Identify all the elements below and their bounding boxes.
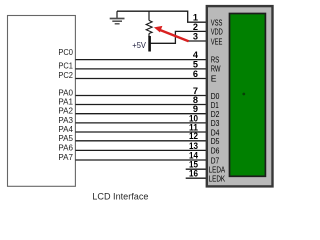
svg-text:D6: D6 [211, 146, 220, 156]
wire PC0 to pin 4 [75, 59, 207, 61]
svg-text:E: E [211, 73, 217, 83]
pin label PA7 [58, 153, 73, 162]
svg-text:5: 5 [193, 59, 198, 69]
LCD module body [207, 6, 273, 186]
wire PA6 to pin 13 [75, 149, 207, 151]
pin name RW [211, 64, 221, 74]
pin number 1 [193, 13, 198, 23]
wire VDD pin 2 to +5V [149, 31, 207, 43]
potentiometer wiper red arrow to VEE [154, 26, 189, 41]
svg-text:VDD: VDD [211, 27, 223, 37]
caption LCD Interface [92, 191, 148, 201]
svg-text:LCD Interface: LCD Interface [92, 191, 148, 201]
pin number 6 [193, 69, 198, 79]
wire PA3 to pin 10 [75, 122, 207, 124]
svg-text:RW: RW [211, 64, 221, 74]
svg-text:PA1: PA1 [58, 98, 73, 107]
wire PA5 to pin 12 [75, 140, 207, 142]
wire PA1 to pin 8 [75, 104, 207, 106]
LCD green screen [230, 14, 266, 177]
wire VEE pin 3 stub [187, 40, 207, 42]
svg-text:16: 16 [189, 169, 198, 179]
svg-text:3: 3 [193, 31, 198, 41]
wire stub LEDK pin 16 [186, 177, 207, 179]
pin number 2 [193, 22, 198, 32]
wire PA4 to pin 11 [75, 131, 207, 133]
pin name RS [211, 54, 220, 64]
svg-text:PA3: PA3 [58, 116, 73, 125]
pin number 10 [189, 113, 198, 123]
wire ground rail to VSS [117, 11, 188, 22]
pin label PA5 [58, 134, 73, 143]
wire PC1 to pin 5 [75, 68, 207, 70]
pin name E [211, 73, 217, 83]
pin name D1 [211, 100, 219, 110]
pin number 16 [189, 169, 198, 179]
pin number 15 [189, 159, 198, 169]
pin label PA2 [58, 107, 73, 116]
svg-text:12: 12 [189, 131, 198, 141]
svg-text:+5V: +5V [132, 41, 146, 50]
wire PA0 to pin 7 [75, 95, 207, 97]
wire stub LEDA pin 15 [186, 168, 207, 170]
pin name D0 [211, 91, 220, 101]
svg-text:PA0: PA0 [58, 89, 73, 98]
svg-text:PA4: PA4 [58, 125, 73, 134]
pin number 3 [193, 31, 198, 41]
pin label PA3 [58, 116, 73, 125]
svg-text:PA5: PA5 [58, 134, 73, 143]
pin label PC2 [58, 71, 73, 80]
pin number 4 [193, 50, 199, 60]
pin number 8 [193, 95, 198, 105]
svg-text:PA6: PA6 [58, 143, 73, 152]
svg-text:PA2: PA2 [58, 107, 73, 116]
svg-text:PC1: PC1 [58, 61, 73, 70]
pin label PA6 [58, 143, 73, 152]
pin label PA0 [58, 89, 73, 98]
pin label PA1 [58, 98, 73, 107]
svg-text:D5: D5 [211, 136, 220, 146]
pin number 7 [193, 86, 198, 96]
pin name D4 [211, 127, 220, 137]
pin name D7 [211, 155, 220, 165]
pin name D6 [211, 146, 220, 156]
pin name VDD [211, 27, 223, 37]
pin name LEDA [209, 164, 226, 174]
pin name VSS [211, 18, 223, 28]
wire PA7 to pin 14 [75, 159, 207, 161]
pin label PC1 [58, 61, 73, 70]
svg-text:PA7: PA7 [58, 153, 73, 162]
ground [110, 11, 125, 24]
pin name D3 [211, 118, 220, 128]
svg-text:LEDK: LEDK [209, 173, 226, 183]
potentiometer (contrast) [146, 11, 152, 37]
+5V power terminal [132, 36, 149, 52]
pin name D5 [211, 136, 220, 146]
pin number 5 [193, 59, 198, 69]
screen pixel dot [242, 93, 245, 96]
pin number 11 [189, 122, 198, 132]
svg-text:VEE: VEE [211, 36, 223, 46]
pin name LEDK [209, 173, 226, 183]
svg-text:2: 2 [193, 22, 198, 32]
wire PC2 to pin 6 [75, 78, 207, 80]
wire VSS pin 1 stub [187, 21, 207, 23]
pin label PA4 [58, 125, 73, 134]
pin name D2 [211, 109, 220, 119]
wire PA2 to pin 9 [75, 113, 207, 115]
pin number 9 [193, 104, 198, 114]
svg-text:PC2: PC2 [58, 71, 73, 80]
pin number 13 [189, 141, 198, 151]
svg-text:PC0: PC0 [58, 48, 73, 57]
MCU port box [8, 16, 76, 187]
svg-text:13: 13 [189, 141, 198, 151]
pin number 14 [189, 150, 199, 160]
svg-text:6: 6 [193, 69, 198, 79]
pin name VEE [211, 36, 223, 46]
pin label PC0 [58, 48, 73, 57]
pin number 12 [189, 131, 198, 141]
